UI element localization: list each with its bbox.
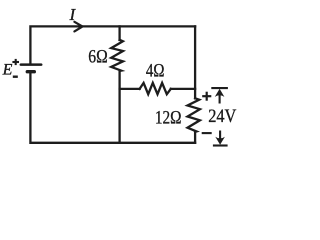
resistor 12ohm zigzag xyxy=(188,98,200,132)
current arrow head I xyxy=(74,22,82,32)
wire left-bottom xyxy=(30,73,195,143)
wire 4ohm branch right xyxy=(171,88,195,90)
wire middle branch bottom xyxy=(118,71,120,143)
12ohm minus sign xyxy=(202,132,212,134)
svg-text:24V: 24V xyxy=(208,106,236,127)
battery E long plate (+) xyxy=(21,63,41,66)
wire right branch bottom xyxy=(194,132,196,143)
resistor 6ohm zigzag xyxy=(111,40,123,71)
voltage arrow down to bar xyxy=(213,131,228,146)
12ohm plus sign xyxy=(202,92,211,101)
battery E short plate (-) xyxy=(27,70,34,73)
wire top xyxy=(30,26,195,63)
resistor 4ohm zigzag xyxy=(140,83,171,94)
wire 4ohm branch left xyxy=(120,88,140,90)
battery minus sign xyxy=(13,75,18,77)
battery plus sign xyxy=(12,59,19,65)
svg-text:E: E xyxy=(2,62,13,79)
svg-text:I: I xyxy=(69,5,77,24)
wire right branch top xyxy=(194,26,196,98)
voltage arrow up to bar xyxy=(211,88,228,103)
svg-text:4Ω: 4Ω xyxy=(146,61,165,82)
svg-text:12Ω: 12Ω xyxy=(155,108,182,129)
svg-text:6Ω: 6Ω xyxy=(88,47,107,68)
wire middle branch top xyxy=(118,26,120,40)
